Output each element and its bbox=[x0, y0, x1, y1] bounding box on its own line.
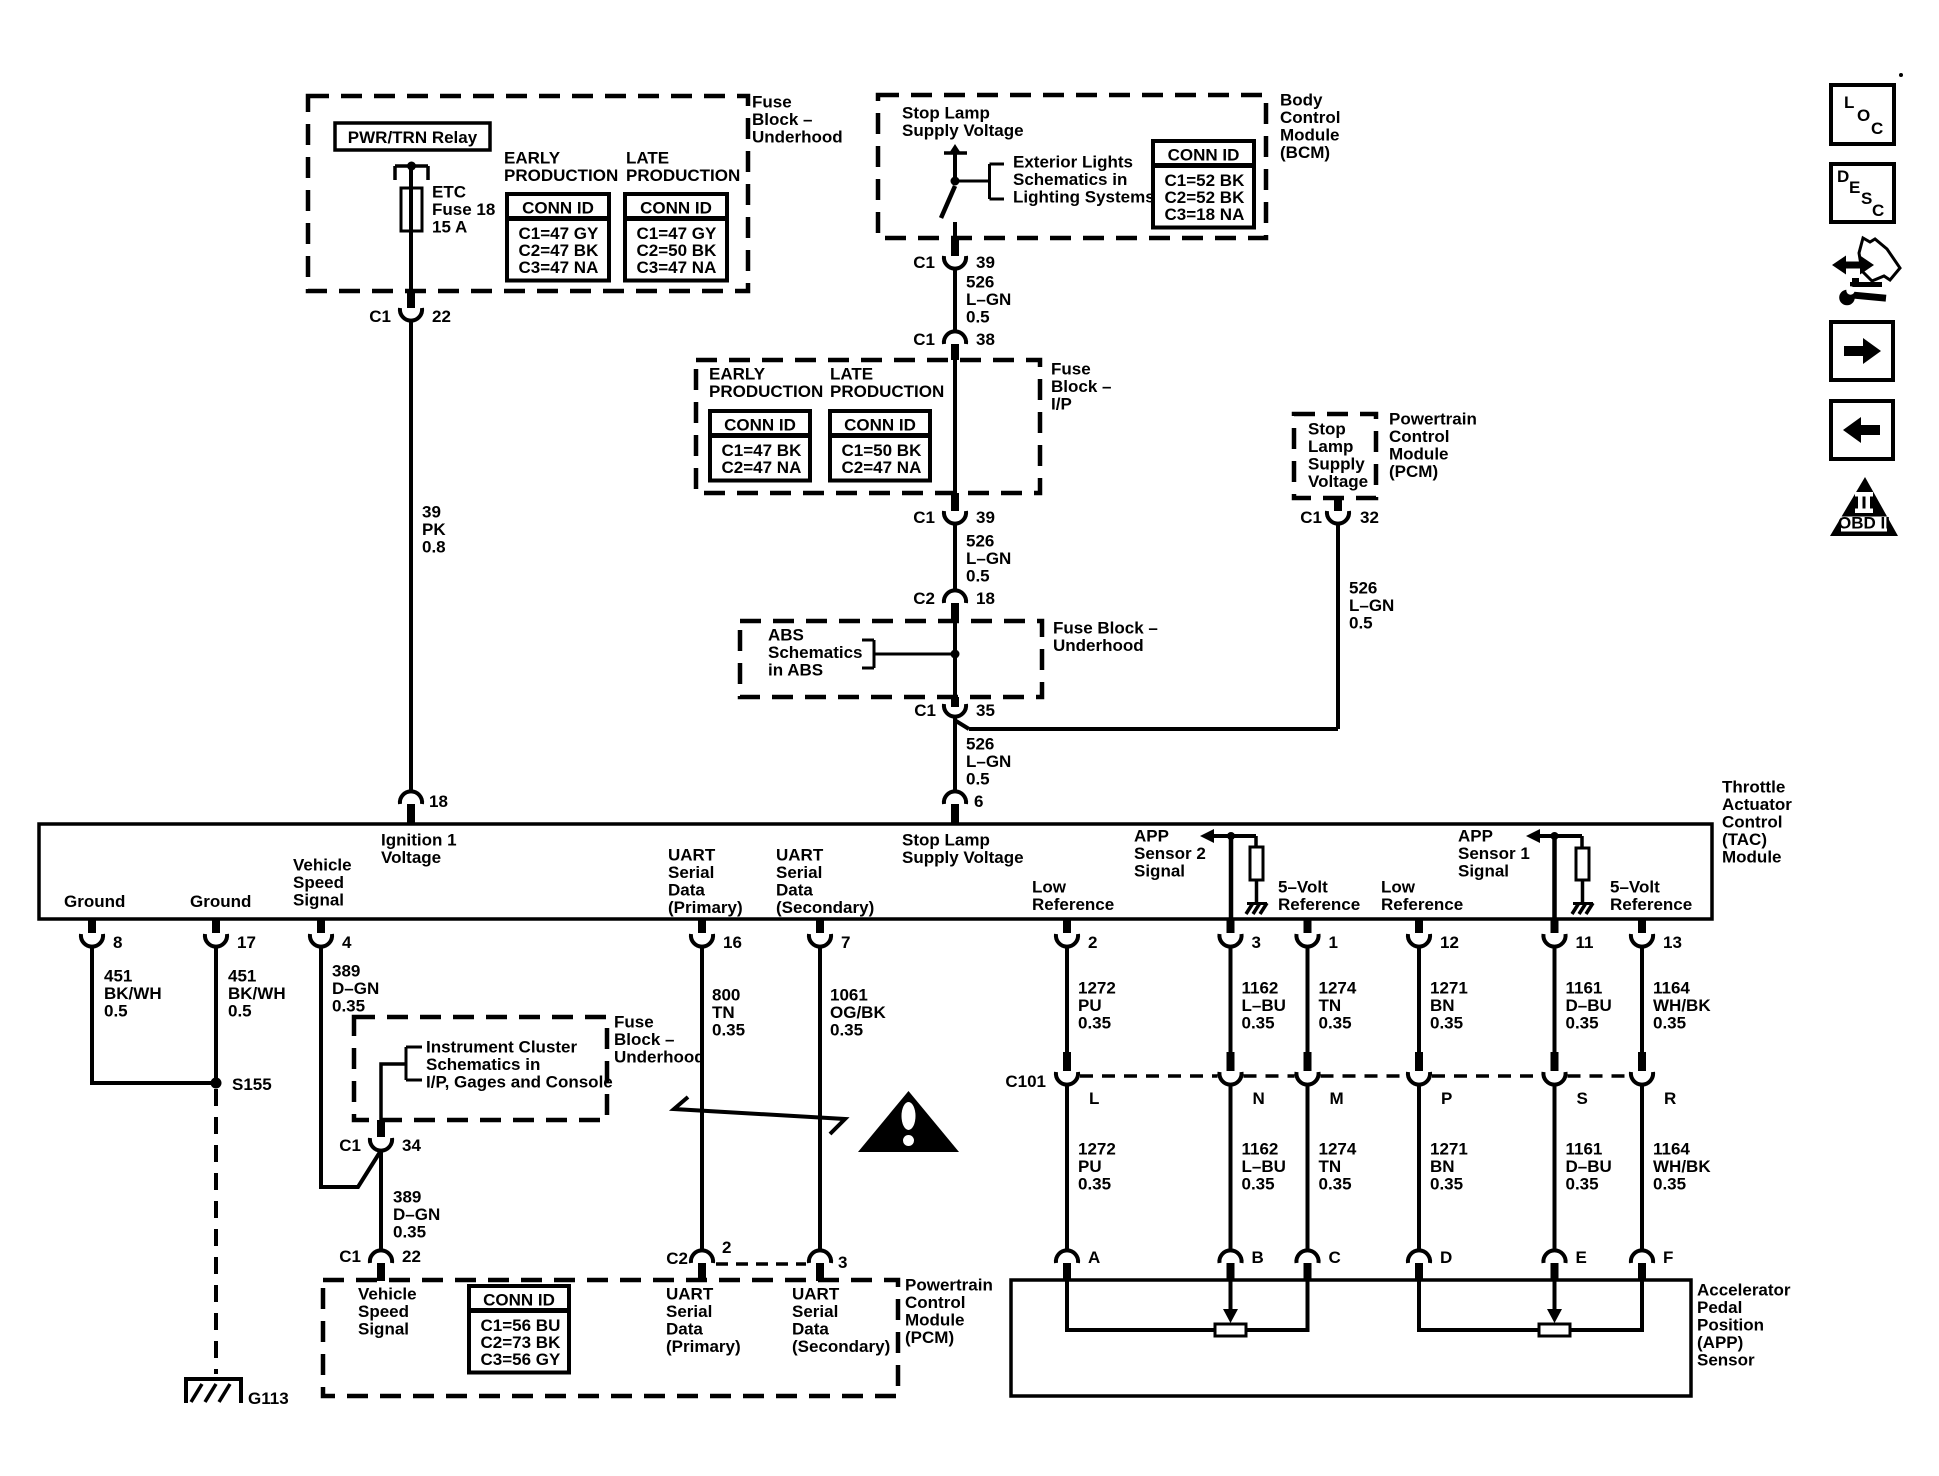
label EARLY PRODUCTION (I/P) bbox=[709, 365, 823, 402]
label: circuit 1272 PU 0.35 (upper) bbox=[1078, 979, 1116, 1033]
wire 526 L-GN 0.5 (I/P to underhood) bbox=[953, 524, 957, 590]
ground (APP sensor 2, internal) bbox=[1246, 903, 1267, 914]
wire 1271 BN (TAC to C101 P) bbox=[1417, 947, 1421, 1052]
svg-text:1272: 1272 bbox=[1078, 1140, 1116, 1159]
svg-text:18: 18 bbox=[976, 589, 995, 608]
TAC pin 6 connector (top) bbox=[944, 791, 984, 824]
svg-text:0.35: 0.35 bbox=[393, 1223, 426, 1242]
svg-text:ETC: ETC bbox=[432, 183, 466, 202]
svg-text:Instrument Cluster: Instrument Cluster bbox=[426, 1038, 578, 1057]
svg-text:39: 39 bbox=[976, 253, 995, 272]
svg-text:Vehicle: Vehicle bbox=[293, 856, 352, 875]
svg-text:Fuse: Fuse bbox=[614, 1013, 654, 1032]
svg-text:D–BU: D–BU bbox=[1566, 996, 1612, 1015]
label: Instrument Cluster Schematics in I/P, Gages and Console bbox=[426, 1038, 613, 1092]
dashed connector line C101 bbox=[1080, 1074, 1629, 1078]
svg-text:13: 13 bbox=[1663, 933, 1682, 952]
instrument cluster (dashed box) bbox=[354, 1017, 607, 1120]
svg-text:BK/WH: BK/WH bbox=[104, 984, 162, 1003]
svg-text:Signal: Signal bbox=[1458, 862, 1509, 881]
wire 1272 PU (TAC to C101 L) bbox=[1065, 947, 1069, 1052]
svg-text:(PCM): (PCM) bbox=[1389, 462, 1438, 481]
svg-text:I/P, Gages and Console: I/P, Gages and Console bbox=[426, 1073, 613, 1092]
connector C2-18 (fuse block underhood) bbox=[913, 589, 995, 621]
svg-text:S: S bbox=[1577, 1089, 1588, 1108]
TAC pin 2 connector (bottom) bbox=[1056, 919, 1098, 952]
svg-text:1164: 1164 bbox=[1653, 979, 1690, 998]
svg-text:1161: 1161 bbox=[1566, 979, 1603, 998]
svg-text:1274: 1274 bbox=[1319, 1140, 1357, 1159]
svg-text:0.35: 0.35 bbox=[1078, 1014, 1111, 1033]
connector C1-39 (fuse block I/P exit) bbox=[913, 493, 995, 527]
svg-text:Fuse 18: Fuse 18 bbox=[432, 200, 495, 219]
svg-text:EARLY: EARLY bbox=[504, 149, 561, 168]
label: Stop Lamp Supply Voltage (PCM) bbox=[1308, 420, 1368, 492]
svg-text:N: N bbox=[1253, 1089, 1265, 1108]
svg-text:389: 389 bbox=[393, 1188, 421, 1207]
svg-text:32: 32 bbox=[1360, 508, 1379, 527]
TAC pin 17 connector (bottom) bbox=[205, 919, 256, 952]
svg-text:1162: 1162 bbox=[1242, 1140, 1279, 1159]
conn id table (early, I/P) bbox=[710, 411, 810, 481]
svg-text:Serial: Serial bbox=[792, 1302, 838, 1321]
label: circuit 389 D-GN 0.35 (lower) bbox=[393, 1188, 440, 1242]
TAC pin 3 connector (bottom) bbox=[1219, 919, 1261, 952]
svg-text:PWR/TRN Relay: PWR/TRN Relay bbox=[348, 128, 478, 147]
label: circuit 1271 BN 0.35 (upper) bbox=[1430, 979, 1468, 1033]
svg-text:F: F bbox=[1663, 1248, 1673, 1267]
svg-text:C3=18 NA: C3=18 NA bbox=[1165, 205, 1245, 224]
svg-text:(Secondary): (Secondary) bbox=[776, 898, 874, 917]
wire 1274 TN (TAC to C101 M) bbox=[1306, 947, 1310, 1052]
label: circuit 1061 OG/BK 0.35 bbox=[830, 986, 886, 1040]
svg-text:39: 39 bbox=[976, 508, 995, 527]
svg-text:CONN ID: CONN ID bbox=[640, 199, 712, 218]
label: circuit 1274 TN 0.35 (upper) bbox=[1319, 979, 1357, 1033]
ground (APP sensor 1, internal) bbox=[1572, 903, 1593, 914]
connector APP pin D bbox=[1408, 1248, 1452, 1281]
label: circuit 1162 L–BU 0.35 (upper) bbox=[1242, 979, 1286, 1033]
svg-text:PRODUCTION: PRODUCTION bbox=[830, 382, 944, 401]
wire 1161 D–BU (TAC to C101 S) bbox=[1553, 947, 1557, 1052]
svg-text:L: L bbox=[1089, 1089, 1099, 1108]
connector APP pin F bbox=[1631, 1248, 1673, 1281]
svg-text:1: 1 bbox=[1329, 933, 1338, 952]
powertrain control module (dashed box, bottom) bbox=[323, 1280, 898, 1396]
svg-text:Position: Position bbox=[1697, 1316, 1764, 1335]
svg-text:Lighting Systems: Lighting Systems bbox=[1013, 188, 1155, 207]
svg-text:C1: C1 bbox=[339, 1136, 361, 1155]
connector C101 pin M bbox=[1296, 1052, 1343, 1108]
svg-text:526: 526 bbox=[966, 532, 994, 551]
resistor (APP sensor 2 pull-up) bbox=[1250, 836, 1263, 903]
label: Body Control Module (BCM) bbox=[1280, 91, 1340, 163]
label EARLY PRODUCTION (underhood) bbox=[504, 149, 618, 186]
svg-text:1161: 1161 bbox=[1566, 1140, 1603, 1159]
svg-text:0.35: 0.35 bbox=[332, 997, 365, 1016]
svg-text:BN: BN bbox=[1430, 996, 1455, 1015]
svg-text:UART: UART bbox=[666, 1285, 714, 1304]
svg-text:0.35: 0.35 bbox=[1430, 1175, 1463, 1194]
svg-text:CONN ID: CONN ID bbox=[1168, 146, 1240, 165]
label: circuit 1272 PU 0.35 (lower) bbox=[1078, 1140, 1116, 1194]
svg-text:BK/WH: BK/WH bbox=[228, 984, 286, 1003]
svg-text:0.5: 0.5 bbox=[966, 308, 990, 327]
APP sensor 1 potentiometer wiring bbox=[1419, 1281, 1642, 1330]
label: circuit 451 BK/WH 0.5 (pin 17) bbox=[228, 967, 286, 1021]
warning triangle (caution note) bbox=[858, 1091, 959, 1152]
connector APP pin B bbox=[1219, 1248, 1263, 1281]
label: Low Reference (pin 12) bbox=[1381, 878, 1463, 915]
svg-text:Speed: Speed bbox=[358, 1302, 409, 1321]
svg-text:TN: TN bbox=[1319, 1157, 1342, 1176]
svg-text:Serial: Serial bbox=[668, 863, 714, 882]
svg-text:P: P bbox=[1441, 1089, 1452, 1108]
APP sensor 1 internal arrow bbox=[1526, 829, 1582, 843]
svg-text:UART: UART bbox=[792, 1285, 840, 1304]
svg-text:B: B bbox=[1252, 1248, 1264, 1267]
connector C101 pin P bbox=[1408, 1052, 1452, 1108]
svg-text:Fuse: Fuse bbox=[752, 93, 792, 112]
svg-text:C1: C1 bbox=[914, 701, 936, 720]
icon: OBD II triangle bbox=[1830, 477, 1898, 536]
svg-text:1061: 1061 bbox=[830, 986, 868, 1005]
wire 1162 L–BU (TAC to C101 N) bbox=[1229, 947, 1233, 1052]
svg-text:C2: C2 bbox=[913, 589, 935, 608]
connector C1-22 (PCM) bbox=[339, 1247, 421, 1281]
svg-text:5–Volt: 5–Volt bbox=[1278, 878, 1328, 897]
TAC pin 1 connector (bottom) bbox=[1296, 919, 1338, 952]
svg-text:Signal: Signal bbox=[293, 891, 344, 910]
svg-text:526: 526 bbox=[1349, 579, 1377, 598]
TAC pin 16 connector (bottom) bbox=[691, 919, 742, 952]
svg-text:Sensor 1: Sensor 1 bbox=[1458, 844, 1530, 863]
svg-text:Low: Low bbox=[1032, 878, 1067, 897]
label: Stop Lamp Supply Voltage (TAC) bbox=[902, 831, 1024, 868]
svg-text:3: 3 bbox=[1252, 933, 1261, 952]
wire 1272 PU (C101 to APP A) bbox=[1065, 1085, 1069, 1252]
label: circuit 1274 TN 0.35 (lower) bbox=[1319, 1140, 1357, 1194]
APP sensor 2 internal wire bbox=[1227, 832, 1235, 919]
svg-text:C1: C1 bbox=[913, 253, 935, 272]
svg-text:Sensor 2: Sensor 2 bbox=[1134, 844, 1206, 863]
wire through ABS box bbox=[953, 621, 957, 697]
svg-text:11: 11 bbox=[1576, 933, 1594, 952]
svg-text:G113: G113 bbox=[248, 1389, 289, 1408]
wire 451 BK/WH (pin 8 to S155) bbox=[92, 947, 214, 1083]
label: Vehicle Speed Signal (PCM) bbox=[358, 1285, 417, 1339]
svg-text:Stop: Stop bbox=[1308, 420, 1346, 439]
svg-text:Ignition 1: Ignition 1 bbox=[381, 831, 457, 850]
svg-text:L–GN: L–GN bbox=[966, 290, 1011, 309]
fuse block - underhood (dashed box) bbox=[308, 96, 748, 291]
svg-text:0.35: 0.35 bbox=[1242, 1175, 1275, 1194]
svg-text:(Primary): (Primary) bbox=[668, 898, 743, 917]
svg-text:(Secondary): (Secondary) bbox=[792, 1337, 890, 1356]
svg-text:0.35: 0.35 bbox=[1653, 1175, 1686, 1194]
connector C2-2 (PCM UART primary) bbox=[666, 1238, 731, 1281]
label: 5-Volt Reference (pin 13) bbox=[1610, 878, 1692, 915]
svg-text:Module: Module bbox=[1280, 126, 1340, 145]
label: circuit 1161 D–BU 0.35 (lower) bbox=[1566, 1140, 1612, 1194]
svg-text:L–BU: L–BU bbox=[1242, 1157, 1286, 1176]
svg-text:Control: Control bbox=[1389, 427, 1449, 446]
wire 526 L-GN 0.5 (BCM to fuse block I/P) bbox=[953, 269, 957, 332]
TAC pin 13 connector (bottom) bbox=[1631, 919, 1682, 952]
label: Ignition 1 Voltage bbox=[381, 831, 457, 868]
svg-text:0.35: 0.35 bbox=[1319, 1014, 1352, 1033]
svg-text:451: 451 bbox=[104, 967, 132, 986]
svg-text:E: E bbox=[1576, 1248, 1587, 1267]
svg-text:0.35: 0.35 bbox=[1653, 1014, 1686, 1033]
label: circuit 451 BK/WH 0.5 (pin 8) bbox=[104, 967, 162, 1021]
svg-text:451: 451 bbox=[228, 967, 256, 986]
dashed link C2-2 to 3 bbox=[716, 1262, 806, 1266]
svg-text:0.5: 0.5 bbox=[966, 770, 990, 789]
svg-text:C1: C1 bbox=[369, 307, 391, 326]
svg-text:Voltage: Voltage bbox=[381, 848, 441, 867]
conn id table (late, underhood) bbox=[625, 194, 727, 281]
powertrain control module stop-lamp (dashed box) bbox=[1294, 414, 1376, 498]
TAC pin 12 connector (bottom) bbox=[1408, 919, 1459, 952]
svg-text:Speed: Speed bbox=[293, 873, 344, 892]
svg-text:(BCM): (BCM) bbox=[1280, 143, 1330, 162]
svg-text:Module: Module bbox=[1389, 445, 1449, 464]
svg-text:Signal: Signal bbox=[1134, 862, 1185, 881]
svg-text:BN: BN bbox=[1430, 1157, 1455, 1176]
svg-text:0.5: 0.5 bbox=[966, 567, 990, 586]
svg-text:EARLY: EARLY bbox=[709, 365, 766, 384]
wire instrument cluster to C1-34 bbox=[381, 1064, 406, 1120]
connector C1-39 (BCM) bbox=[913, 240, 995, 272]
svg-text:Vehicle: Vehicle bbox=[358, 1285, 417, 1304]
label: UART Serial Data Secondary (PCM) bbox=[792, 1285, 890, 1357]
svg-text:S: S bbox=[1861, 189, 1872, 208]
svg-text:39: 39 bbox=[422, 503, 441, 522]
svg-text:Stop Lamp: Stop Lamp bbox=[902, 104, 990, 123]
label: circuit 389 D-GN 0.35 (upper) bbox=[332, 962, 379, 1016]
svg-text:18: 18 bbox=[429, 792, 448, 811]
label: circuit 1271 BN 0.35 (lower) bbox=[1430, 1140, 1468, 1194]
conn id table (late, I/P) bbox=[830, 411, 930, 481]
APP sensor 1 internal wire bbox=[1551, 832, 1559, 919]
svg-text:Reference: Reference bbox=[1610, 895, 1692, 914]
svg-text:C3=47 NA: C3=47 NA bbox=[637, 258, 717, 277]
wire 39 PK 0.8 (C1-22 to TAC pin 18) bbox=[409, 321, 413, 791]
svg-text:C3=56 GY: C3=56 GY bbox=[481, 1350, 562, 1369]
throttle actuator control (TAC) module box bbox=[39, 824, 1712, 919]
svg-text:4: 4 bbox=[342, 933, 352, 952]
wire 1162 L–BU (C101 to APP B) bbox=[1229, 1085, 1233, 1252]
svg-text:C2=47 NA: C2=47 NA bbox=[842, 458, 922, 477]
connector C1-38 (fuse block I/P) bbox=[913, 330, 995, 360]
label: 5-Volt Reference (pin 1) bbox=[1278, 878, 1360, 915]
svg-text:C1: C1 bbox=[913, 330, 935, 349]
connector C101 pin S bbox=[1543, 1052, 1587, 1108]
label: circuit 39 PK 0.8 bbox=[422, 503, 446, 557]
svg-text:526: 526 bbox=[966, 273, 994, 292]
wire 451 BK/WH (pin 17 to S155) bbox=[214, 947, 218, 1083]
svg-text:D: D bbox=[1440, 1248, 1452, 1267]
svg-text:WH/BK: WH/BK bbox=[1653, 996, 1711, 1015]
svg-text:C: C bbox=[1329, 1248, 1341, 1267]
svg-text:Control: Control bbox=[905, 1293, 965, 1312]
svg-text:Fuse: Fuse bbox=[1051, 360, 1091, 379]
wire 1274 TN (C101 to APP C) bbox=[1306, 1085, 1310, 1252]
label: Vehicle Speed Signal (TAC) bbox=[293, 856, 352, 910]
label: Fuse Block - Underhood (instrument cluster) bbox=[614, 1013, 705, 1067]
resistor (APP sensor 1 pull-up) bbox=[1576, 836, 1589, 903]
label: circuit 526 L-GN 0.5 (upper) bbox=[966, 273, 1011, 327]
svg-text:Schematics: Schematics bbox=[768, 643, 863, 662]
svg-text:2: 2 bbox=[1088, 933, 1097, 952]
svg-text:0.35: 0.35 bbox=[1566, 1175, 1599, 1194]
svg-text:L–GN: L–GN bbox=[966, 549, 1011, 568]
label: circuit 1162 L–BU 0.35 (lower) bbox=[1242, 1140, 1286, 1194]
svg-text:D–GN: D–GN bbox=[332, 979, 379, 998]
svg-text:APP: APP bbox=[1458, 827, 1493, 846]
connector APP pin E bbox=[1543, 1248, 1586, 1281]
fuse block - underhood / ABS (dashed box) bbox=[740, 621, 1042, 697]
svg-text:Throttle: Throttle bbox=[1722, 778, 1785, 797]
wire switch to exterior lights bracket bbox=[955, 180, 989, 183]
svg-text:L–GN: L–GN bbox=[966, 752, 1011, 771]
svg-text:1162: 1162 bbox=[1242, 979, 1279, 998]
label: Ground (pin 17) bbox=[190, 892, 251, 911]
svg-text:389: 389 bbox=[332, 962, 360, 981]
svg-text:A: A bbox=[1088, 1248, 1100, 1267]
svg-text:D–BU: D–BU bbox=[1566, 1157, 1612, 1176]
svg-text:7: 7 bbox=[841, 933, 850, 952]
svg-text:(TAC): (TAC) bbox=[1722, 830, 1767, 849]
svg-text:1271: 1271 bbox=[1430, 1140, 1468, 1159]
svg-text:12: 12 bbox=[1440, 933, 1459, 952]
connector APP pin C bbox=[1296, 1248, 1340, 1281]
svg-text:C3=47 NA: C3=47 NA bbox=[519, 258, 599, 277]
wire 1271 BN (C101 to APP D) bbox=[1417, 1085, 1421, 1252]
svg-text:1274: 1274 bbox=[1319, 979, 1357, 998]
wire C1-35 to TAC pin 6 bbox=[953, 717, 957, 791]
svg-text:C2=47 NA: C2=47 NA bbox=[722, 458, 802, 477]
TAC pin 4 connector (bottom) bbox=[310, 919, 352, 952]
relay contact symbol bbox=[395, 162, 428, 181]
svg-text:C1: C1 bbox=[913, 508, 935, 527]
potentiometer (APP sensor 1) bbox=[1539, 1324, 1570, 1336]
svg-text:Block –: Block – bbox=[1051, 377, 1111, 396]
svg-text:UART: UART bbox=[776, 846, 824, 865]
svg-text:C: C bbox=[1872, 201, 1884, 220]
svg-text:Pedal: Pedal bbox=[1697, 1298, 1742, 1317]
accelerator pedal position (APP) sensor box bbox=[1011, 1280, 1691, 1396]
label LATE PRODUCTION (underhood) bbox=[626, 149, 740, 186]
label: ABS Schematics in ABS bbox=[768, 626, 863, 680]
svg-text:S155: S155 bbox=[232, 1075, 272, 1094]
svg-text:35: 35 bbox=[976, 701, 995, 720]
APP sensor 2 potentiometer wiring bbox=[1067, 1281, 1308, 1330]
svg-text:Serial: Serial bbox=[776, 863, 822, 882]
svg-text:C2: C2 bbox=[666, 1249, 688, 1268]
svg-text:TN: TN bbox=[712, 1003, 735, 1022]
svg-text:Powertrain: Powertrain bbox=[1389, 410, 1477, 429]
label: Low Reference (pin 2) bbox=[1032, 878, 1114, 915]
label: Fuse Block - Underhood bbox=[752, 93, 843, 147]
svg-text:C: C bbox=[1871, 119, 1883, 138]
bracket instrument cluster bbox=[406, 1047, 422, 1080]
svg-text:Module: Module bbox=[905, 1311, 965, 1330]
connector C101 pin R bbox=[1631, 1052, 1676, 1108]
svg-text:1164: 1164 bbox=[1653, 1140, 1690, 1159]
label: UART Serial Data Primary (PCM) bbox=[666, 1285, 741, 1357]
label: circuit 1164 WH/BK 0.35 (lower) bbox=[1653, 1140, 1711, 1194]
wire relay to fuse bbox=[409, 166, 413, 188]
svg-text:15 A: 15 A bbox=[432, 218, 467, 237]
svg-text:C1: C1 bbox=[1300, 508, 1322, 527]
svg-text:5–Volt: 5–Volt bbox=[1610, 878, 1660, 897]
svg-text:Reference: Reference bbox=[1278, 895, 1360, 914]
conn id table (PCM) bbox=[469, 1286, 569, 1373]
svg-text:R: R bbox=[1664, 1089, 1676, 1108]
svg-text:LATE: LATE bbox=[830, 365, 873, 384]
svg-text:Fuse Block –: Fuse Block – bbox=[1053, 619, 1158, 638]
label: UART Serial Data Primary (TAC) bbox=[668, 846, 743, 918]
svg-text:2: 2 bbox=[722, 1238, 731, 1257]
TAC pin 11 connector (bottom) bbox=[1543, 919, 1593, 952]
svg-text:Powertrain: Powertrain bbox=[905, 1276, 993, 1295]
wire 389 D-GN (pin 4 down) bbox=[321, 947, 380, 1187]
icon: DESC box bbox=[1831, 164, 1894, 222]
wire 526 L-GN 0.5 (PCM branch) bbox=[956, 524, 1338, 729]
label: Powertrain Control Module (PCM) right bbox=[1389, 410, 1477, 482]
svg-text:Signal: Signal bbox=[358, 1320, 409, 1339]
svg-text:1272: 1272 bbox=[1078, 979, 1116, 998]
svg-text:Underhood: Underhood bbox=[614, 1048, 705, 1067]
label: circuit 526 L-GN 0.5 (PCM) bbox=[1349, 579, 1394, 633]
svg-text:CONN ID: CONN ID bbox=[724, 416, 796, 435]
svg-text:8: 8 bbox=[113, 933, 122, 952]
dot (page mark) bbox=[1899, 73, 1903, 77]
connector C101 pin N bbox=[1219, 1052, 1264, 1108]
label: circuit 800 TN 0.35 bbox=[712, 986, 745, 1040]
svg-text:OG/BK: OG/BK bbox=[830, 1003, 886, 1022]
conn id table (early, underhood) bbox=[507, 194, 609, 281]
conn id table (BCM) bbox=[1153, 141, 1254, 228]
svg-text:1271: 1271 bbox=[1430, 979, 1468, 998]
svg-text:3: 3 bbox=[838, 1253, 847, 1272]
svg-text:Reference: Reference bbox=[1032, 895, 1114, 914]
svg-text:in ABS: in ABS bbox=[768, 661, 823, 680]
svg-text:I/P: I/P bbox=[1051, 395, 1072, 414]
svg-text:Serial: Serial bbox=[666, 1302, 712, 1321]
svg-text:38: 38 bbox=[976, 330, 995, 349]
svg-text:0.8: 0.8 bbox=[422, 538, 446, 557]
svg-text:Control: Control bbox=[1280, 108, 1340, 127]
svg-text:Ground: Ground bbox=[64, 892, 125, 911]
connector 3 (PCM UART secondary) bbox=[809, 1250, 848, 1281]
svg-text:Data: Data bbox=[776, 881, 813, 900]
label: circuit 526 L-GN 0.5 (lower) bbox=[966, 735, 1011, 789]
svg-text:22: 22 bbox=[402, 1247, 421, 1266]
svg-text:PK: PK bbox=[422, 520, 446, 539]
stop lamp switch (BCM) bbox=[941, 144, 967, 243]
svg-text:Block –: Block – bbox=[752, 110, 812, 129]
potentiometer (APP sensor 2) bbox=[1215, 1324, 1246, 1336]
wire 1061 OG/BK (pin 7 to PCM) bbox=[818, 947, 822, 1251]
svg-text:(Primary): (Primary) bbox=[666, 1337, 741, 1356]
svg-text:Ground: Ground bbox=[190, 892, 251, 911]
svg-text:Reference: Reference bbox=[1381, 895, 1463, 914]
label: Throttle Actuator Control (TAC) Module bbox=[1722, 778, 1792, 867]
label: Ground (pin 8) bbox=[64, 892, 125, 911]
